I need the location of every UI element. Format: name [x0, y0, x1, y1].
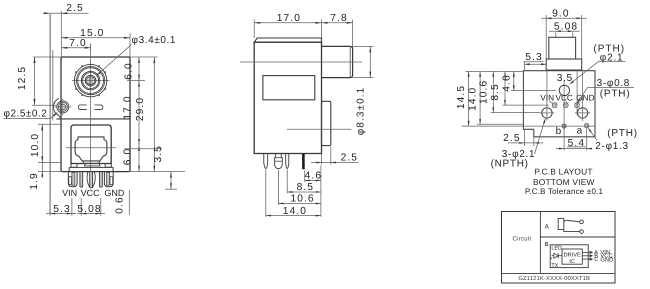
ext top right — [130, 56, 158, 58]
side ext pinA — [265, 170, 267, 217]
svg-text:14.0: 14.0 — [283, 206, 307, 217]
svg-text:6.0: 6.0 — [123, 148, 134, 165]
side dim 2.5 — [311, 162, 359, 164]
switch plug rect — [558, 218, 564, 229]
pcb dim 14.5 line — [468, 72, 470, 127]
side ext mid — [321, 20, 323, 45]
ext top left — [33, 56, 61, 58]
side dim 14.0 — [266, 215, 321, 217]
pin VIN lug — [68, 172, 77, 187]
pin 2 — [80, 172, 83, 188]
module outer box — [550, 245, 588, 268]
svg-text:a: a — [577, 126, 584, 137]
side 2.5 ext b — [330, 147, 332, 165]
svg-text:5.4: 5.4 — [568, 138, 585, 149]
dim 7.0 — [61, 47, 90, 49]
side pin B lug — [275, 154, 283, 169]
toslink window — [75, 137, 107, 161]
ext seat right — [128, 171, 185, 173]
front view step line — [57, 118, 131, 120]
pcb ext row 4.6 — [511, 89, 556, 91]
wire to C — [582, 258, 592, 260]
side dia 8.3 dim line — [369, 46, 371, 77]
side barrel — [322, 46, 353, 77]
pcb npth hole left — [542, 108, 552, 118]
pcb dim 5.3 — [523, 61, 543, 63]
pin 4 — [100, 172, 103, 188]
svg-text:(PTH): (PTH) — [607, 128, 638, 139]
base plate top edge — [69, 166, 113, 168]
pcb pad GND — [575, 103, 580, 108]
svg-text:7.0: 7.0 — [69, 38, 86, 49]
barrel hole r5.4 — [85, 75, 96, 86]
svg-text:3.5: 3.5 — [153, 145, 164, 162]
svg-text:10.6: 10.6 — [478, 80, 489, 104]
table middle row line — [540, 236, 615, 238]
ext line body right top — [129, 33, 131, 57]
pcb ext row 14.0 — [477, 123, 523, 125]
pcb ext 5.4 b — [563, 129, 565, 151]
svg-text:17.0: 17.0 — [123, 95, 134, 119]
side dim 7.8 — [322, 22, 353, 24]
barrel ring r8.0 — [83, 73, 99, 89]
svg-text:IC: IC — [569, 259, 575, 265]
svg-text:2-φ1.3: 2-φ1.3 — [595, 141, 628, 152]
svg-text:1.9: 1.9 — [29, 172, 40, 189]
svg-text:TX: TX — [551, 263, 558, 269]
pcb internal line col2 — [563, 80, 565, 131]
svg-text:C: C — [594, 257, 598, 263]
led hole middle ring — [58, 102, 67, 111]
side ext right edge — [320, 166, 322, 217]
dim 1.9 arrows — [41, 162, 43, 178]
svg-text:5.08: 5.08 — [77, 204, 101, 215]
pcb dim 5.08 — [549, 30, 580, 32]
dim 15.0 — [61, 37, 130, 39]
drive ic box — [562, 249, 582, 264]
ext 0.6 right — [128, 190, 130, 215]
svg-text:8.5: 8.5 — [297, 182, 314, 193]
toslink window inner bottom — [82, 161, 84, 163]
pcb dim 10.6 line — [492, 72, 494, 113]
side pin A — [264, 154, 268, 169]
svg-text:(NPTH): (NPTH) — [491, 158, 529, 169]
svg-text:14.5: 14.5 — [456, 85, 467, 109]
table column line — [539, 212, 541, 274]
svg-text:DRIVE: DRIVE — [564, 253, 581, 259]
ext 10.0 bottom — [38, 161, 62, 163]
side dim 4.6 — [305, 180, 321, 182]
ext 1.9 bottom — [38, 171, 62, 173]
led hole outer ring — [57, 101, 69, 113]
pcb ext row 10.6 — [491, 112, 540, 114]
pcb ext 9.0 left — [545, 15, 547, 59]
side axis centerline — [240, 61, 362, 63]
side barrel end face — [349, 47, 351, 77]
pcb leader GND — [578, 102, 579, 104]
side pin C — [286, 154, 289, 169]
svg-text:P.C.B Tolerance ±0.1: P.C.B Tolerance ±0.1 — [525, 187, 604, 196]
svg-text:0.6: 0.6 — [115, 196, 126, 213]
pcb ab row centerline — [462, 125, 596, 127]
side ext pinC — [286, 170, 288, 194]
receptacle foot right — [105, 164, 111, 168]
pcb ext 9.0 right — [581, 15, 583, 59]
barrel ring r9.2 — [81, 71, 99, 89]
side ext pinB — [277, 170, 279, 205]
svg-text:BOTTOM VIEW: BOTTOM VIEW — [533, 177, 595, 187]
dim col B right — [153, 57, 155, 172]
side dia 8.3 ext bottom — [353, 77, 374, 79]
svg-text:VCC: VCC — [556, 94, 573, 103]
ext barrel center right — [127, 80, 145, 82]
svg-text:5.08: 5.08 — [554, 21, 578, 32]
svg-text:A: A — [545, 223, 550, 230]
svg-text:(PTH): (PTH) — [600, 89, 631, 100]
pcb dim 9.0 — [541, 17, 587, 19]
switch bottom wire — [564, 230, 580, 232]
side body outline — [254, 42, 321, 153]
front view left flange inner edge — [52, 50, 54, 121]
pcb ext 5.3 — [523, 62, 525, 71]
svg-text:VIN: VIN — [62, 188, 77, 198]
table bottom row line — [502, 272, 616, 274]
dim col A right — [138, 57, 140, 172]
pcb npth hole right — [577, 108, 587, 118]
svg-text:2.5: 2.5 — [503, 133, 520, 144]
ext 10.0 top — [38, 123, 62, 125]
ext 5.08 left — [80, 198, 82, 216]
pcb ext 5.4 a — [586, 128, 588, 151]
pin GND lug — [104, 172, 113, 187]
side dim 8.5 — [287, 191, 321, 193]
svg-text:VIN: VIN — [540, 94, 554, 103]
pcb dim 5.4 — [567, 146, 586, 148]
pcb ext 2.5 a — [523, 129, 525, 146]
pcb ext top — [466, 71, 524, 73]
svg-text:P.C.B LAYOUT: P.C.B LAYOUT — [534, 167, 592, 177]
pcb npth leader — [535, 120, 546, 155]
svg-text:GZ1121K-XXXX-00XXT1B: GZ1121K-XXXX-00XXT1B — [518, 275, 590, 282]
side ext pinD — [304, 171, 306, 182]
pcb step rect — [546, 59, 582, 70]
ext 5.08 right — [100, 198, 102, 216]
side ext right — [352, 20, 354, 49]
svg-text:2.5: 2.5 — [341, 153, 358, 164]
receptacle foot left — [71, 164, 77, 168]
svg-text:3.5: 3.5 — [557, 73, 573, 84]
label dia 3.4 leader — [97, 45, 131, 75]
receptacle outer square — [71, 125, 111, 164]
switch contact circle bottom — [580, 230, 584, 234]
svg-text:φ8.3±0.1: φ8.3±0.1 — [356, 87, 367, 136]
wire to A — [582, 251, 592, 253]
svg-text:b: b — [556, 126, 563, 137]
svg-text:GND: GND — [600, 256, 613, 263]
led corner arc — [53, 98, 60, 118]
barrel scalloped outer ring — [74, 64, 106, 96]
side tab — [322, 101, 331, 145]
svg-text:φ2.5±0.2: φ2.5±0.2 — [4, 109, 48, 120]
base plate right edge — [112, 167, 114, 171]
svg-text:12.5: 12.5 — [17, 66, 28, 90]
svg-text:7.8: 7.8 — [330, 13, 347, 24]
svg-text:29.0: 29.0 — [135, 97, 146, 121]
side pin D dark post — [302, 154, 305, 170]
svg-text:LED: LED — [551, 246, 562, 252]
ext receptacle center right — [124, 148, 162, 150]
pcb pad b — [562, 124, 566, 128]
side top plate — [254, 38, 321, 42]
pcb pad a — [585, 124, 589, 128]
side ext left — [253, 20, 255, 39]
svg-text:14.0: 14.0 — [467, 87, 478, 111]
ext line body left top — [60, 11, 62, 57]
pcb ext 2.5 b — [533, 137, 535, 146]
switch moving contact — [564, 220, 580, 222]
pin VCC fork — [90, 172, 93, 188]
barrel center pin — [87, 77, 95, 85]
front view left flange edge — [49, 14, 51, 214]
side dim 17.0 — [254, 22, 321, 24]
pcb upper rect — [549, 37, 576, 59]
led hole crosshair — [54, 106, 71, 108]
pcb dim 14.0 line — [479, 72, 481, 125]
wire to B — [582, 255, 592, 257]
switch contact circle top — [580, 220, 584, 224]
pcb internal line col3 — [576, 71, 578, 115]
barrel pin slot — [88, 77, 90, 85]
pcb pad VCC — [564, 103, 569, 108]
side tab axis line — [287, 128, 351, 130]
pcb internal line col1 — [546, 71, 548, 121]
svg-text:6.0: 6.0 — [124, 62, 135, 79]
pcb 0.8 leader — [588, 87, 635, 89]
svg-text:17.0: 17.0 — [277, 13, 301, 24]
svg-text:4.6: 4.6 — [501, 74, 512, 91]
svg-text:10.6: 10.6 — [290, 194, 314, 205]
ext led center left — [32, 104, 57, 106]
pcb ext row 8.5 — [503, 104, 550, 106]
svg-text:4.6: 4.6 — [305, 171, 322, 182]
svg-text:Circuit: Circuit — [512, 236, 531, 243]
pcb pad VIN — [552, 103, 557, 108]
base plate left edge — [68, 167, 70, 171]
svg-text:10.0: 10.0 — [30, 133, 41, 157]
pcb pth 2.1 leader — [571, 61, 599, 83]
pcb ext 5.08 left — [555, 33, 557, 38]
ext pin tips right — [165, 188, 177, 190]
svg-text:5.3: 5.3 — [53, 204, 70, 215]
dim 3.5 line — [170, 172, 172, 190]
svg-text:9.0: 9.0 — [552, 9, 569, 20]
latch mark left — [78, 105, 86, 110]
dim 12.5 line — [34, 57, 36, 105]
front view body outline — [61, 57, 130, 172]
svg-text:8.5: 8.5 — [490, 83, 501, 100]
ext 5.3 right — [71, 198, 73, 216]
pcb pth13 leader — [589, 129, 597, 141]
receptacle horizontal centerline — [66, 147, 116, 149]
svg-text:B: B — [545, 241, 549, 248]
dim 2.5 top — [43, 12, 89, 14]
side 2.5 ext a — [321, 154, 323, 165]
barrel scallop bumps — [104, 88, 106, 91]
dim 5.08 — [77, 213, 105, 215]
led hole inner — [60, 104, 65, 109]
svg-text:φ3.4±0.1: φ3.4±0.1 — [132, 35, 177, 46]
pcb leader VCC — [565, 102, 568, 104]
front view barrel horizontal centerline — [72, 80, 110, 82]
dim 5.3 — [46, 213, 76, 215]
side window rect — [263, 76, 315, 100]
front view vertical centerline — [90, 44, 92, 172]
svg-text:2.5: 2.5 — [66, 3, 83, 14]
pcb main outline — [523, 71, 595, 137]
barrel ring r14.4 — [77, 67, 105, 95]
table outer box — [502, 212, 616, 284]
receptacle bottom trapezoid — [84, 164, 100, 166]
barrel ring r13.2 — [78, 68, 104, 94]
pcb dim 2.5 — [508, 142, 543, 144]
latch mark right — [95, 105, 103, 110]
svg-text:VCC: VCC — [81, 188, 101, 198]
ext 5.3 left — [49, 196, 51, 216]
led symbol — [554, 253, 558, 258]
ext centerline up — [90, 44, 92, 53]
svg-text:5.3: 5.3 — [525, 52, 542, 63]
pcb leader VIN — [550, 102, 554, 104]
dim 10.0 line — [41, 124, 43, 162]
pcb internal line col4 — [582, 71, 584, 121]
pcb center hole — [559, 85, 569, 95]
pcb dim 4.6 line — [513, 72, 515, 91]
label dia 2.5 underline-leader — [4, 118, 51, 120]
pcb ext 5.08 right — [572, 33, 574, 38]
pcb dim 8.5 line — [504, 72, 506, 106]
side dim 10.6 — [278, 203, 321, 205]
side dia 8.3 ext top — [353, 45, 374, 47]
